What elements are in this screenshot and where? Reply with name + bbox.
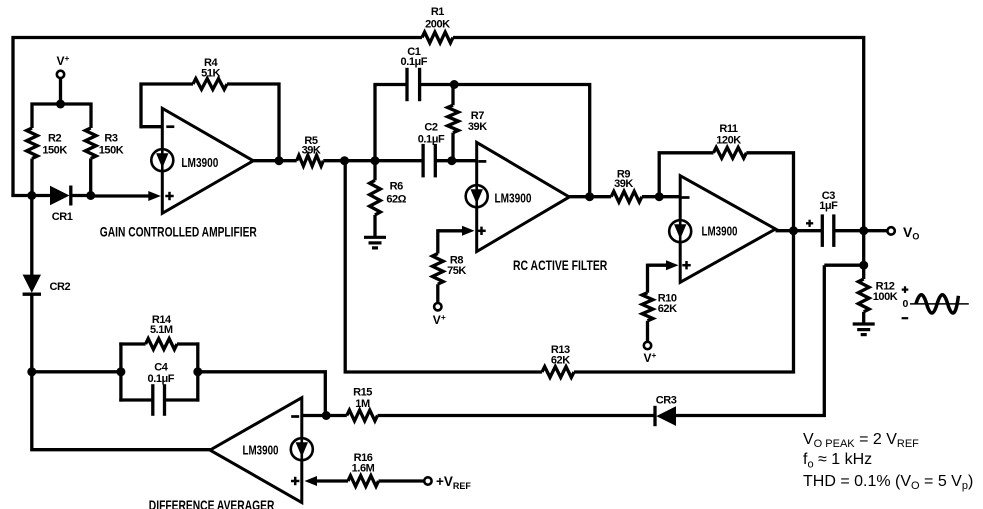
node C1-R7 junction [450, 80, 459, 89]
op-amp U2 LM3900 [477, 142, 570, 251]
diode CR2 [23, 275, 41, 293]
node R12 top [859, 261, 868, 270]
resistor R8 [432, 254, 443, 285]
svg-text:5.1M: 5.1M [150, 324, 173, 336]
wire C1 line to U2 output [454, 85, 590, 197]
wire R14 left lead [119, 342, 145, 345]
svg-text:LM3900: LM3900 [702, 224, 738, 239]
op-amp U4 minus sign [291, 415, 299, 418]
wire R4 loop right [227, 84, 279, 161]
wire box left vertical [119, 342, 122, 401]
resistor R1 [422, 32, 453, 43]
wire box right vertical [196, 342, 199, 401]
wire C4 right lead [165, 398, 200, 401]
svg-text:0: 0 [903, 298, 909, 310]
node U1 output-R4 [275, 156, 284, 165]
wire R10 to V+ terminal [646, 321, 649, 342]
wire to Vo terminal [864, 229, 887, 232]
resistor R7 [448, 105, 459, 133]
svg-text:62K: 62K [658, 303, 677, 315]
diode CR1 [50, 186, 70, 205]
wire CR1 cathode to node [71, 194, 91, 197]
node Vo [859, 226, 868, 235]
resistor R3 [85, 128, 96, 159]
wire R16 left lead [316, 479, 348, 482]
op-amp U3 minus sign [682, 196, 690, 199]
node B main line [371, 156, 380, 165]
wire R10 vertical lead [646, 264, 649, 293]
wire C1 left lead [373, 83, 407, 86]
wire top rail right and right rail down [453, 38, 864, 231]
ground below R12 [853, 322, 875, 325]
svg-text:150K: 150K [42, 144, 67, 156]
svg-text:GAIN CONTROLLED AMPLIFIER: GAIN CONTROLLED AMPLIFIER [100, 223, 257, 239]
resistor R13 [542, 367, 574, 378]
svg-text:R2: R2 [48, 132, 61, 144]
svg-text:1.6M: 1.6M [352, 463, 375, 475]
svg-text:200K: 200K [425, 19, 450, 31]
svg-text:CR2: CR2 [50, 281, 71, 293]
wire CR3 riser horizontal [824, 264, 863, 267]
node V+ junction [56, 100, 65, 109]
op-amp U1 plus sign [165, 195, 173, 198]
wire U3 output [776, 229, 823, 232]
svg-text:62Ω: 62Ω [386, 193, 406, 205]
node CR1 cathode junction [86, 191, 95, 200]
node averager feedback left [27, 367, 36, 376]
svg-text:DIFFERENCE AVERAGER: DIFFERENCE AVERAGER [149, 497, 275, 509]
wire R6 bottom lead [373, 215, 376, 237]
wire U3 + input lead [648, 264, 669, 267]
wire R5 to C2 [323, 159, 423, 162]
svg-text:150K: 150K [99, 144, 124, 156]
wire R6 top lead [373, 161, 376, 181]
op-amp U1 minus sign [166, 125, 174, 128]
ground below R6 [364, 236, 386, 239]
wire R8 vertical lead [436, 229, 439, 253]
svg-text:THD = 0.1% (VO = 5 Vp): THD = 0.1% (VO = 5 Vp) [803, 473, 973, 492]
node A main line [340, 156, 349, 165]
node C2-R7 junction [447, 156, 456, 165]
svg-text:C2: C2 [424, 122, 437, 134]
wire U1 output [253, 159, 296, 162]
op-amp U1 LM3900 [162, 108, 253, 213]
node U2 output [585, 192, 594, 201]
wire U1 inverting input lead [141, 125, 162, 128]
resistor R5 [297, 155, 324, 166]
node CR1 anode junction [27, 191, 36, 200]
svg-text:39K: 39K [468, 121, 487, 133]
node U3 inverting input [655, 192, 664, 201]
wire left rail to CR1 node [11, 194, 51, 197]
wire R16 to VREF terminal [379, 479, 425, 482]
wire R8 to V+ terminal [436, 284, 439, 303]
svg-text:1M: 1M [355, 398, 370, 410]
op-amp U4 LM3900 [210, 398, 302, 503]
wire R12 bottom lead [862, 312, 865, 324]
wire U2 + input lead [438, 229, 463, 232]
svg-text:39K: 39K [614, 178, 633, 190]
wire C2 to U2 input [435, 159, 477, 162]
arrowhead into U4 + input [305, 476, 318, 486]
capacitor C3 [821, 214, 824, 247]
resistor R2 [27, 128, 38, 159]
resistor R11 [714, 147, 747, 158]
svg-text:RC ACTIVE FILTER: RC ACTIVE FILTER [513, 257, 607, 273]
wire V+ stub [59, 78, 62, 105]
terminal +VREF [424, 477, 431, 484]
resistor R6 [370, 180, 381, 215]
diode CR3 [653, 406, 656, 426]
wire C1 right lead [420, 83, 455, 86]
wire left rail and top rail [13, 38, 422, 197]
node U3 output [789, 226, 798, 235]
svg-text:51K: 51K [201, 68, 220, 80]
svg-text:R1: R1 [431, 6, 444, 18]
sine wave axis [910, 303, 969, 305]
svg-text:R11: R11 [719, 123, 738, 135]
wire Vo node down [862, 231, 865, 279]
svg-text:CR3: CR3 [656, 395, 677, 407]
wire C3 to Vo node [834, 229, 864, 232]
resistor R9 [611, 191, 642, 202]
wire box to averager input corner [198, 372, 325, 416]
svg-text:LM3900: LM3900 [243, 443, 279, 458]
resistor R10 [642, 293, 653, 321]
wire R11 loop left [659, 153, 713, 199]
wire C4 left lead [119, 398, 153, 401]
wire C1 branch up [373, 85, 376, 163]
wire to op1 + input [91, 194, 150, 197]
wire R4 loop left [141, 84, 193, 128]
capacitor C2 [421, 144, 424, 178]
svg-text:C4: C4 [154, 362, 168, 374]
resistor R16 [348, 476, 379, 487]
wire R7 bottom lead [451, 133, 454, 161]
svg-text:75K: 75K [447, 265, 466, 277]
op-amp U3 plus sign [682, 264, 690, 267]
arrowhead into U3 + input [666, 260, 679, 270]
label sine plus [902, 289, 909, 291]
node R15 junction [322, 411, 331, 420]
op-amp U2 plus sign [477, 230, 485, 233]
svg-text:R15: R15 [353, 387, 372, 399]
svg-text:1μF: 1μF [819, 200, 838, 212]
wire CR3 to riser and up to Vo [676, 265, 824, 415]
svg-text:fo ≈ 1 kHz: fo ≈ 1 kHz [803, 451, 872, 470]
svg-text:39K: 39K [302, 144, 321, 156]
terminal Vo [887, 227, 894, 234]
svg-text:120K: 120K [716, 135, 741, 147]
svg-text:LM3900: LM3900 [181, 155, 218, 170]
svg-text:CR1: CR1 [52, 211, 73, 223]
arrowhead into U2 + input [462, 226, 475, 236]
wire CR2 to averager output corner [32, 294, 212, 450]
terminal V+ R10 [644, 342, 651, 349]
wire R11 loop right [746, 153, 793, 231]
wire CR1 node down to CR2 [30, 196, 33, 276]
capacitor C1 [405, 68, 408, 101]
label C3 polarity plus [806, 222, 813, 224]
wire R7 top lead [451, 85, 454, 106]
terminal V+ R8 [434, 303, 441, 310]
sine wave symbol [916, 295, 958, 313]
wire R2 bottom lead [30, 159, 33, 196]
wire R15 to CR3 [378, 414, 654, 417]
node box right [193, 367, 202, 376]
resistor R12 [858, 279, 869, 312]
svg-text:100K: 100K [873, 291, 898, 303]
arrowhead into op1 + input [148, 191, 161, 201]
svg-text:0.1μF: 0.1μF [148, 373, 175, 385]
wire R13 right segment and riser [574, 231, 794, 372]
wire R3 bottom lead [89, 159, 92, 196]
wire R13 branch down and left segment [345, 161, 542, 372]
op-amp U3 LM3900 [680, 176, 775, 283]
wire U4 inverting input lead [302, 414, 347, 417]
wire R14 right lead [177, 342, 199, 345]
svg-text:62K: 62K [551, 354, 570, 366]
label sine minus [902, 317, 909, 319]
wire R2-R3 top bar [32, 104, 91, 128]
terminal V+ top-left [57, 71, 64, 78]
svg-text:0.1μF: 0.1μF [401, 56, 428, 68]
svg-text:LM3900: LM3900 [495, 191, 532, 206]
op-amp U2 minus sign [478, 160, 486, 163]
svg-text:0.1μF: 0.1μF [418, 133, 445, 145]
op-amp U4 plus sign [291, 480, 299, 483]
wire U2 output [569, 195, 611, 198]
resistor R15 [347, 410, 378, 421]
svg-text:R6: R6 [390, 180, 403, 192]
node box left [116, 367, 125, 376]
wire node to box [32, 370, 121, 373]
wire R9 to U3 input [642, 195, 681, 198]
resistor R4 [193, 79, 227, 90]
resistor R14 [146, 339, 177, 350]
capacitor C4 [151, 384, 154, 416]
svg-text:R3: R3 [104, 132, 117, 144]
